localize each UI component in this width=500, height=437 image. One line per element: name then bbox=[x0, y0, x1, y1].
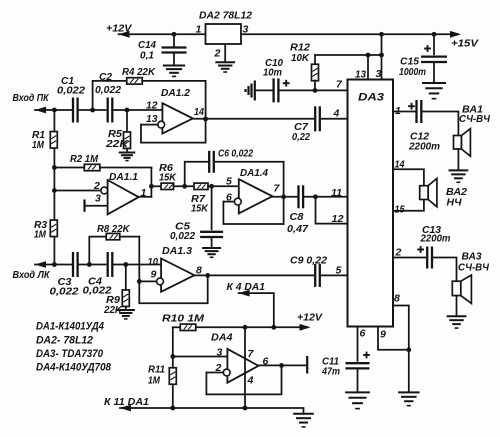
svg-text:10m: 10m bbox=[263, 67, 282, 79]
svg-text:3: 3 bbox=[95, 193, 101, 205]
svg-text:14: 14 bbox=[194, 106, 204, 118]
svg-text:0,022: 0,022 bbox=[57, 85, 85, 97]
svg-text:12: 12 bbox=[332, 213, 344, 225]
svg-text:0,022: 0,022 bbox=[170, 230, 195, 242]
svg-text:+15V: +15V bbox=[451, 38, 479, 50]
svg-text:1: 1 bbox=[196, 24, 202, 36]
svg-text:7: 7 bbox=[274, 183, 281, 195]
svg-text:10: 10 bbox=[148, 256, 159, 268]
svg-text:4: 4 bbox=[333, 108, 340, 120]
svg-text:DA4-К140УД708: DA4-К140УД708 bbox=[36, 362, 112, 374]
svg-text:5: 5 bbox=[336, 265, 342, 277]
svg-text:8: 8 bbox=[394, 293, 400, 305]
svg-text:12: 12 bbox=[146, 100, 158, 112]
svg-text:0,47: 0,47 bbox=[287, 223, 309, 235]
svg-text:DA3: DA3 bbox=[358, 92, 384, 104]
svg-text:2: 2 bbox=[395, 247, 402, 259]
svg-text:Вход ЛК: Вход ЛК bbox=[13, 270, 51, 281]
svg-text:DA1.1: DA1.1 bbox=[109, 171, 138, 183]
svg-text:15: 15 bbox=[395, 204, 405, 216]
svg-text:22K: 22K bbox=[103, 304, 123, 316]
svg-text:R8 22K: R8 22K bbox=[97, 223, 131, 235]
svg-text:DA1.4: DA1.4 bbox=[240, 167, 268, 179]
svg-text:DA2- 78L12: DA2- 78L12 bbox=[36, 335, 93, 347]
svg-text:СЧ-ВЧ: СЧ-ВЧ bbox=[458, 263, 490, 274]
svg-text:0,022: 0,022 bbox=[50, 286, 79, 298]
svg-text:47m: 47m bbox=[321, 366, 340, 378]
svg-text:DA4: DA4 bbox=[211, 332, 233, 344]
svg-text:7: 7 bbox=[248, 348, 255, 360]
svg-text:9: 9 bbox=[380, 329, 386, 341]
svg-text:10K: 10K bbox=[291, 52, 310, 64]
svg-text:6: 6 bbox=[360, 328, 366, 340]
svg-text:+12V: +12V bbox=[297, 312, 323, 324]
svg-text:3: 3 bbox=[217, 347, 223, 359]
svg-text:C8: C8 bbox=[290, 211, 304, 223]
svg-text:1M: 1M bbox=[148, 375, 160, 387]
svg-text:4: 4 bbox=[247, 375, 254, 387]
svg-text:13: 13 bbox=[146, 113, 158, 125]
svg-text:0,022: 0,022 bbox=[95, 84, 121, 96]
svg-text:1M: 1M bbox=[32, 139, 44, 151]
svg-text:DA3- TDA7370: DA3- TDA7370 bbox=[36, 348, 104, 360]
svg-text:9: 9 bbox=[151, 269, 157, 281]
svg-text:ВА3: ВА3 bbox=[462, 251, 482, 263]
svg-text:5: 5 bbox=[226, 176, 232, 188]
svg-text:Вход ПК: Вход ПК bbox=[13, 93, 50, 104]
svg-text:R10 1M: R10 1M bbox=[162, 313, 204, 325]
svg-text:3: 3 bbox=[376, 68, 382, 80]
svg-text:СЧ-ВЧ: СЧ-ВЧ bbox=[459, 114, 491, 125]
svg-text:2200m: 2200m bbox=[408, 141, 440, 153]
svg-text:1: 1 bbox=[395, 105, 401, 117]
svg-text:1: 1 bbox=[141, 187, 147, 199]
svg-text:2: 2 bbox=[214, 48, 221, 60]
svg-text:0,22: 0,22 bbox=[292, 131, 310, 143]
svg-text:11: 11 bbox=[331, 187, 342, 199]
svg-text:НЧ: НЧ bbox=[447, 197, 463, 209]
svg-text:К 11 DA1: К 11 DA1 bbox=[104, 396, 149, 408]
svg-text:7: 7 bbox=[336, 79, 343, 91]
svg-text:22K: 22K bbox=[105, 138, 130, 150]
svg-text:DA1.3: DA1.3 bbox=[162, 245, 192, 257]
svg-text:1M: 1M bbox=[34, 229, 46, 241]
svg-text:2: 2 bbox=[93, 180, 100, 192]
svg-text:R4 22K: R4 22K bbox=[122, 66, 156, 78]
svg-text:15K: 15K bbox=[159, 172, 177, 184]
svg-text:0,1: 0,1 bbox=[140, 50, 154, 62]
svg-text:2200m: 2200m bbox=[420, 233, 451, 245]
svg-text:DA1.2: DA1.2 bbox=[161, 87, 190, 99]
svg-text:+12V: +12V bbox=[106, 23, 133, 35]
svg-text:15K: 15K bbox=[191, 203, 209, 215]
svg-text:DA2 78L12: DA2 78L12 bbox=[199, 10, 252, 22]
svg-text:1000m: 1000m bbox=[399, 66, 426, 78]
svg-text:DA1-К1401УД4: DA1-К1401УД4 bbox=[36, 321, 104, 333]
svg-text:C9 0,22: C9 0,22 bbox=[290, 255, 327, 267]
svg-text:R2 1M: R2 1M bbox=[70, 153, 98, 165]
svg-text:К 4 DA1: К 4 DA1 bbox=[227, 281, 266, 293]
svg-text:14: 14 bbox=[395, 159, 405, 171]
svg-text:C6 0,022: C6 0,022 bbox=[218, 148, 253, 160]
